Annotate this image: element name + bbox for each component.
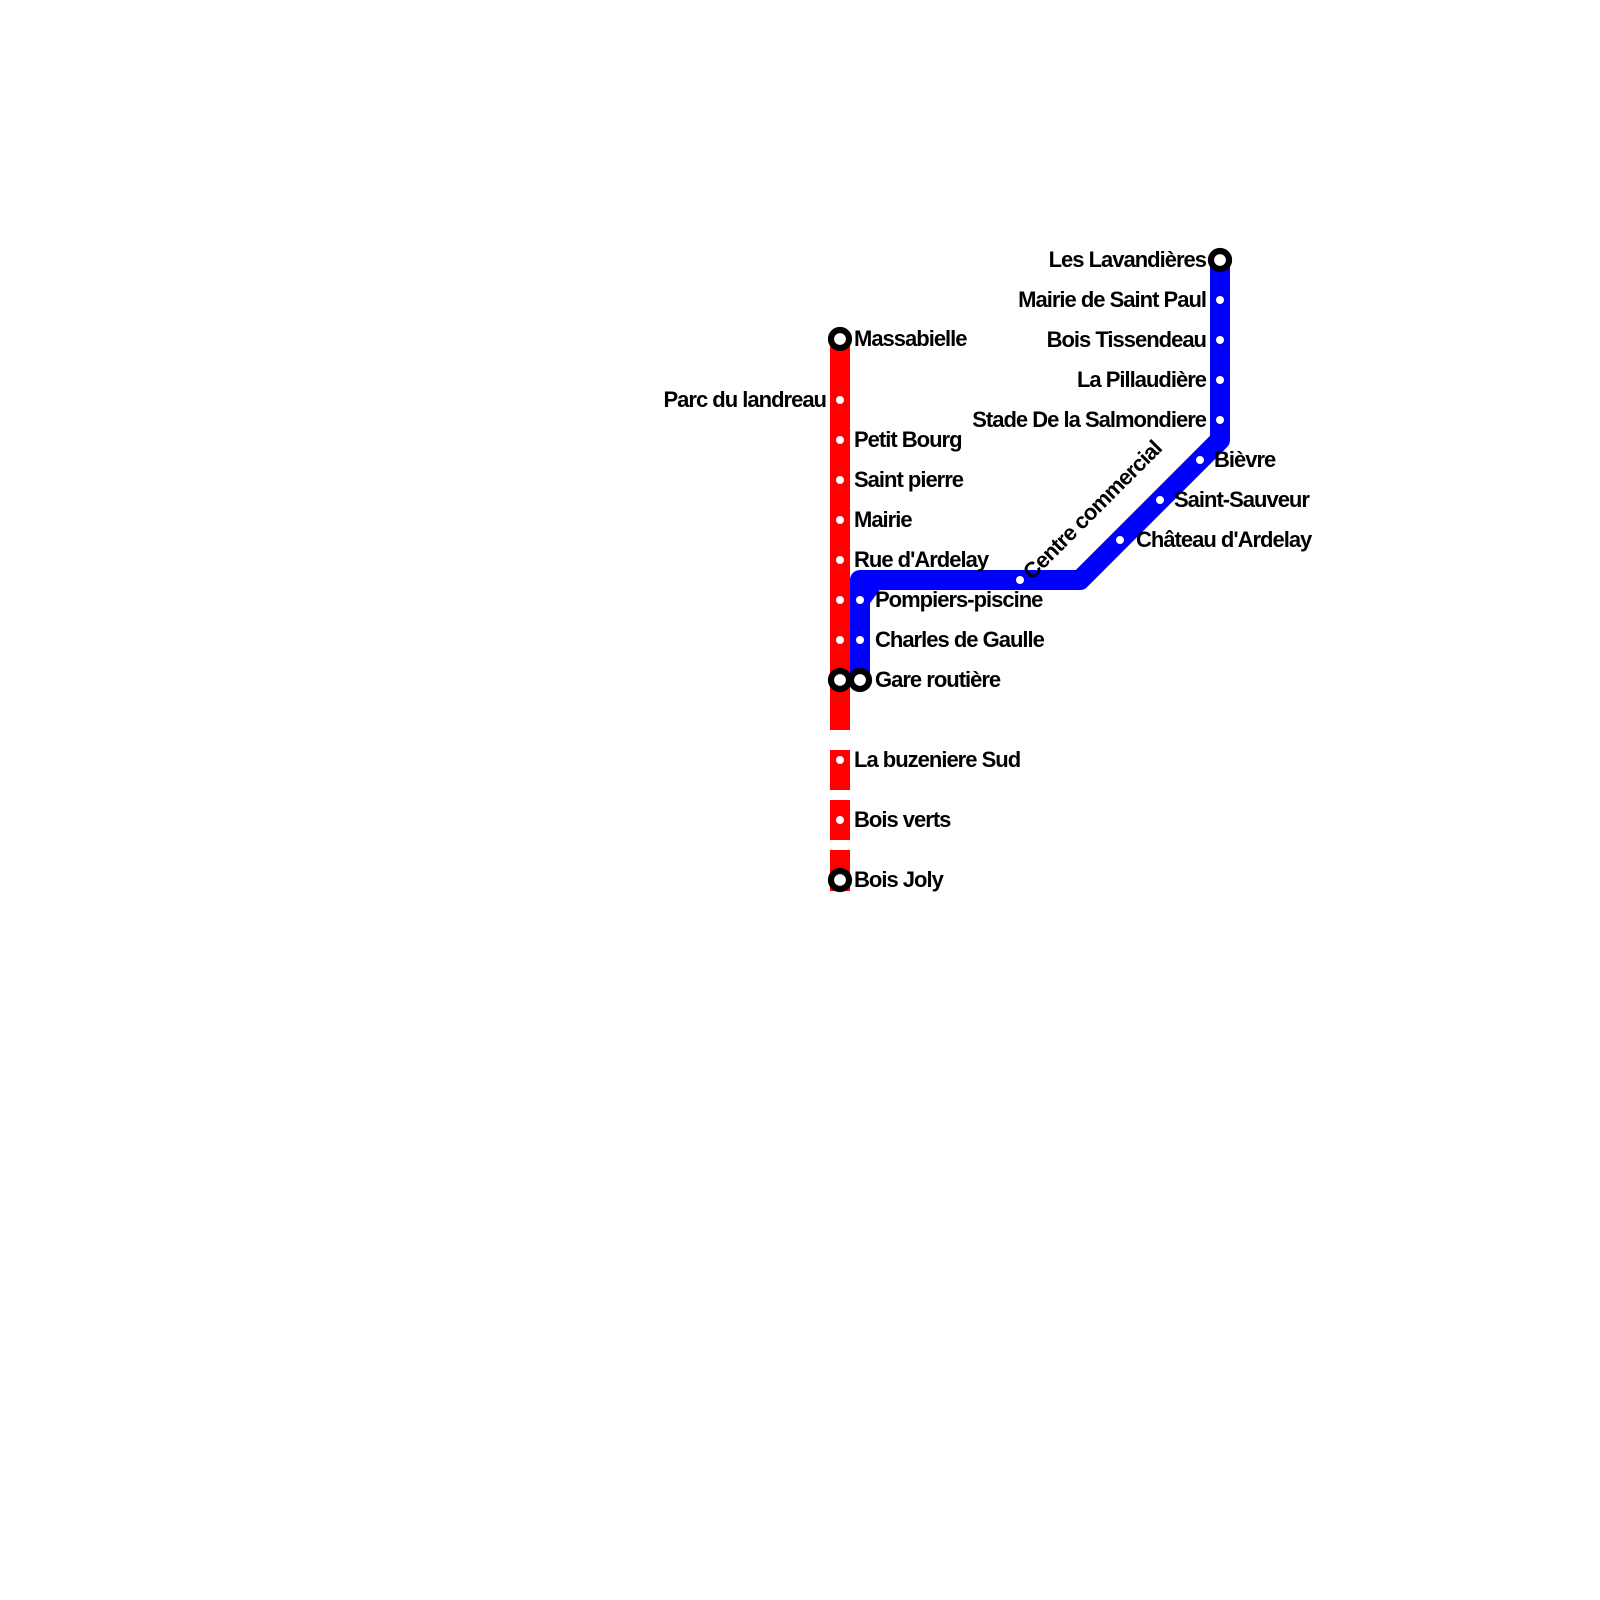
svg-text:La Pillaudière: La Pillaudière [1077, 367, 1207, 392]
station dot Petit Bourg [836, 436, 844, 444]
terminus Bois Joly [831, 871, 849, 889]
svg-text:Bois Tissendeau: Bois Tissendeau [1047, 327, 1206, 352]
svg-text:Pompiers-piscine: Pompiers-piscine [875, 587, 1043, 612]
station dot Château d'Ardelay [1116, 536, 1124, 544]
blue line corner fillet patch [868, 588, 881, 606]
station dot Mairie [836, 516, 844, 524]
station dot Bièvre [1196, 456, 1204, 464]
station dot Mairie de Saint Paul [1216, 296, 1224, 304]
svg-text:Bois verts: Bois verts [854, 807, 951, 832]
terminus Les Lavandières [1211, 251, 1229, 269]
terminus Gare routière blue [851, 671, 869, 689]
svg-text:Gare routière: Gare routière [875, 667, 1001, 692]
svg-text:La buzeniere Sud: La buzeniere Sud [854, 747, 1020, 772]
station dot La buzeniere Sud [836, 756, 844, 764]
svg-text:Saint pierre: Saint pierre [854, 467, 964, 492]
svg-text:Les Lavandières: Les Lavandières [1049, 247, 1207, 272]
station dot Rue d'Ardelay [836, 556, 844, 564]
svg-text:Massabielle: Massabielle [854, 326, 967, 351]
station dot Bois Tissendeau [1216, 336, 1224, 344]
svg-text:Petit Bourg: Petit Bourg [854, 427, 962, 452]
svg-text:Parc du landreau: Parc du landreau [663, 387, 826, 412]
terminus Gare routière red [831, 671, 849, 689]
station dot Pompiers-piscine red [836, 596, 844, 604]
svg-text:Mairie: Mairie [854, 507, 912, 532]
svg-text:Château d'Ardelay: Château d'Ardelay [1136, 527, 1313, 552]
station dot Charles de Gaulle blue [856, 636, 864, 644]
svg-text:Saint-Sauveur: Saint-Sauveur [1174, 487, 1310, 512]
station dot Saint-Sauveur [1156, 496, 1164, 504]
svg-text:Stade De la Salmondiere: Stade De la Salmondiere [972, 407, 1207, 432]
red line main segment [830, 339, 850, 730]
svg-text:Bois Joly: Bois Joly [854, 867, 945, 892]
station dot La Pillaudière [1216, 376, 1224, 384]
station dot Centre commercial [1016, 576, 1024, 584]
station dot Charles de Gaulle red [836, 636, 844, 644]
station dot Saint pierre [836, 476, 844, 484]
red line dash segment La buzeniere Sud [830, 750, 850, 790]
station dot Bois verts [836, 816, 844, 824]
terminus Massabielle [831, 330, 849, 348]
station dot Pompiers-piscine blue [856, 596, 864, 604]
station dot Parc du landreau [836, 396, 844, 404]
blue line [860, 260, 1220, 680]
svg-text:Bièvre: Bièvre [1214, 447, 1276, 472]
red line dash segment Bois Joly [830, 850, 850, 891]
svg-text:Mairie de Saint Paul: Mairie de Saint Paul [1018, 287, 1206, 312]
red line dash segment Bois verts [830, 800, 850, 840]
svg-text:Charles de Gaulle: Charles de Gaulle [875, 627, 1045, 652]
svg-text:Rue d'Ardelay: Rue d'Ardelay [854, 547, 990, 572]
station dot Stade De la Salmondiere [1216, 416, 1224, 424]
